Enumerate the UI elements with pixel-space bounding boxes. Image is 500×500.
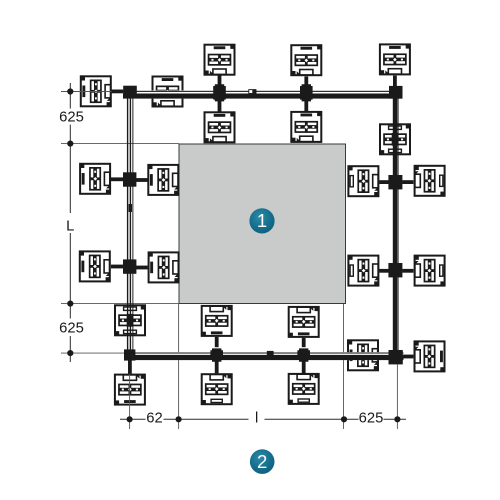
clamp col2 top rail bbox=[300, 84, 313, 101]
extension line panel left down bbox=[178, 304, 180, 429]
stem D bbox=[218, 101, 222, 112]
right rail profile bbox=[393, 86, 398, 358]
dim dot right rail bbox=[394, 416, 400, 422]
stem Q bbox=[128, 360, 132, 373]
left furring channel line 3 bbox=[131, 92, 134, 355]
stem I2 bbox=[402, 180, 413, 184]
stem I3 bbox=[379, 269, 389, 273]
junction top-left bbox=[123, 86, 137, 98]
top rail white underlay bbox=[123, 90, 402, 98]
hanger A left of top-left junction bbox=[81, 76, 111, 106]
callout circle 1 bbox=[249, 208, 274, 233]
svg-text:625: 625 bbox=[359, 411, 384, 427]
stem K1 bbox=[111, 177, 124, 181]
hanger B on top rail bbox=[153, 77, 183, 107]
left dimension line seg1 bbox=[69, 83, 71, 109]
dim dot bottom rail bbox=[67, 350, 73, 356]
extension line left rail down bbox=[129, 361, 131, 430]
hanger K2 left rail row2 right bbox=[148, 165, 178, 195]
hanger K3 left rail row3 left bbox=[80, 251, 110, 281]
stem P2 bbox=[302, 361, 306, 373]
svg-text:2: 2 bbox=[257, 451, 267, 472]
stem P1 bbox=[302, 338, 306, 347]
extension line bottom rail bbox=[61, 352, 124, 354]
bottom dimension line seg3 bbox=[265, 418, 359, 420]
stem K3 bbox=[111, 265, 124, 269]
stem F bbox=[304, 101, 308, 112]
hanger P1 above bottom rail col2 bbox=[289, 307, 319, 337]
stem I4 bbox=[402, 269, 413, 273]
bottom rail white underlay bbox=[124, 352, 404, 360]
left dimension line seg3 bbox=[69, 233, 71, 319]
hanger P2 below bottom rail col2 bbox=[289, 374, 319, 404]
hanger Q below bottom-left junction bbox=[115, 375, 145, 405]
extension line panel right down bbox=[343, 304, 345, 429]
bottom rail flange line bbox=[124, 353, 404, 354]
extension line panel bottom bbox=[61, 303, 179, 305]
junction bottom-left bbox=[124, 349, 135, 360]
left dimension line seg4 bbox=[69, 336, 71, 362]
hanger I3 right rail row3 left bbox=[348, 256, 378, 286]
stem N1 bbox=[215, 337, 219, 347]
junction bottom-right bbox=[389, 350, 403, 364]
callout circle 2 bbox=[250, 449, 275, 474]
bottom rail splice bbox=[267, 351, 274, 355]
dim dot left rail bbox=[127, 416, 133, 422]
stem K2 bbox=[136, 178, 148, 182]
dim dot top rail bbox=[67, 88, 73, 94]
top rail profile bbox=[123, 94, 402, 99]
hanger N2 below bottom rail col1 bbox=[202, 374, 232, 404]
left furring channel line 2 bbox=[130, 92, 131, 355]
hanger N1 above bottom rail col1 bbox=[202, 306, 232, 336]
stem R bbox=[403, 355, 413, 359]
hanger C above top rail col1 bbox=[205, 45, 235, 75]
left dimension line seg2 bbox=[69, 125, 71, 213]
top rail flange line bbox=[123, 91, 402, 92]
svg-text:L: L bbox=[66, 219, 74, 235]
dim dot panel right bbox=[341, 416, 347, 422]
extension line top rail bbox=[61, 91, 123, 93]
junction right rail row3 bbox=[388, 263, 402, 277]
hanger I1 right rail row2 left bbox=[348, 166, 378, 196]
bottom dimension line seg1 bbox=[120, 418, 146, 420]
bottom dimension line seg2 bbox=[164, 418, 249, 420]
dim dot panel left bbox=[176, 416, 182, 422]
svg-text:l: l bbox=[255, 410, 258, 426]
left channel splice bbox=[129, 204, 132, 212]
hanger F below top rail col2 bbox=[291, 112, 321, 142]
clamp col1 bottom rail bbox=[210, 348, 223, 361]
hanger D below top rail col1 bbox=[205, 112, 235, 142]
clamp left rail row3 bbox=[123, 259, 136, 273]
hanger K4 left rail row3 right bbox=[149, 252, 179, 282]
bottom dimension line seg4 bbox=[384, 418, 407, 420]
stem E bbox=[304, 76, 308, 85]
stem N2 bbox=[215, 361, 219, 373]
hanger M on left rail bbox=[115, 305, 145, 335]
clamp col1 top rail bbox=[213, 84, 226, 101]
hanger K1 left rail row2 left bbox=[80, 164, 110, 194]
hanger H on right rail bbox=[380, 124, 410, 154]
stem G to junction bbox=[393, 76, 397, 87]
ceiling panel opening (gray) bbox=[179, 144, 346, 304]
clamp left rail row2 bbox=[123, 172, 136, 186]
clamp col2 bottom rail bbox=[297, 348, 310, 361]
hanger E above top rail col2 bbox=[291, 45, 321, 75]
hanger R right of bottom-right junction bbox=[415, 341, 445, 371]
hanger I2 right rail row2 right bbox=[415, 166, 445, 196]
junction top-right bbox=[389, 86, 403, 99]
bottom rail profile bbox=[124, 355, 404, 360]
svg-text:625: 625 bbox=[59, 321, 84, 337]
dim dot panel bottom bbox=[67, 301, 73, 307]
hanger G above top-right junction bbox=[380, 44, 410, 74]
hanger I4 right rail row3 right bbox=[415, 256, 445, 286]
right rail flange line bbox=[397, 86, 400, 358]
svg-text:1: 1 bbox=[257, 210, 267, 231]
extension line right rail down bbox=[396, 365, 398, 430]
top rail splice bbox=[249, 90, 256, 94]
svg-text:625: 625 bbox=[59, 110, 84, 126]
left furring channel line 1 bbox=[127, 92, 128, 355]
stem I1 bbox=[379, 180, 389, 184]
svg-text:62: 62 bbox=[146, 411, 162, 427]
stem K4 bbox=[136, 266, 148, 270]
junction right rail row2 bbox=[388, 175, 402, 189]
stem C bbox=[218, 75, 222, 85]
dim dot panel top bbox=[67, 141, 73, 147]
extension line panel top bbox=[61, 143, 179, 145]
stem A to junction bbox=[112, 90, 124, 94]
hanger S on bottom rail bbox=[348, 340, 378, 370]
